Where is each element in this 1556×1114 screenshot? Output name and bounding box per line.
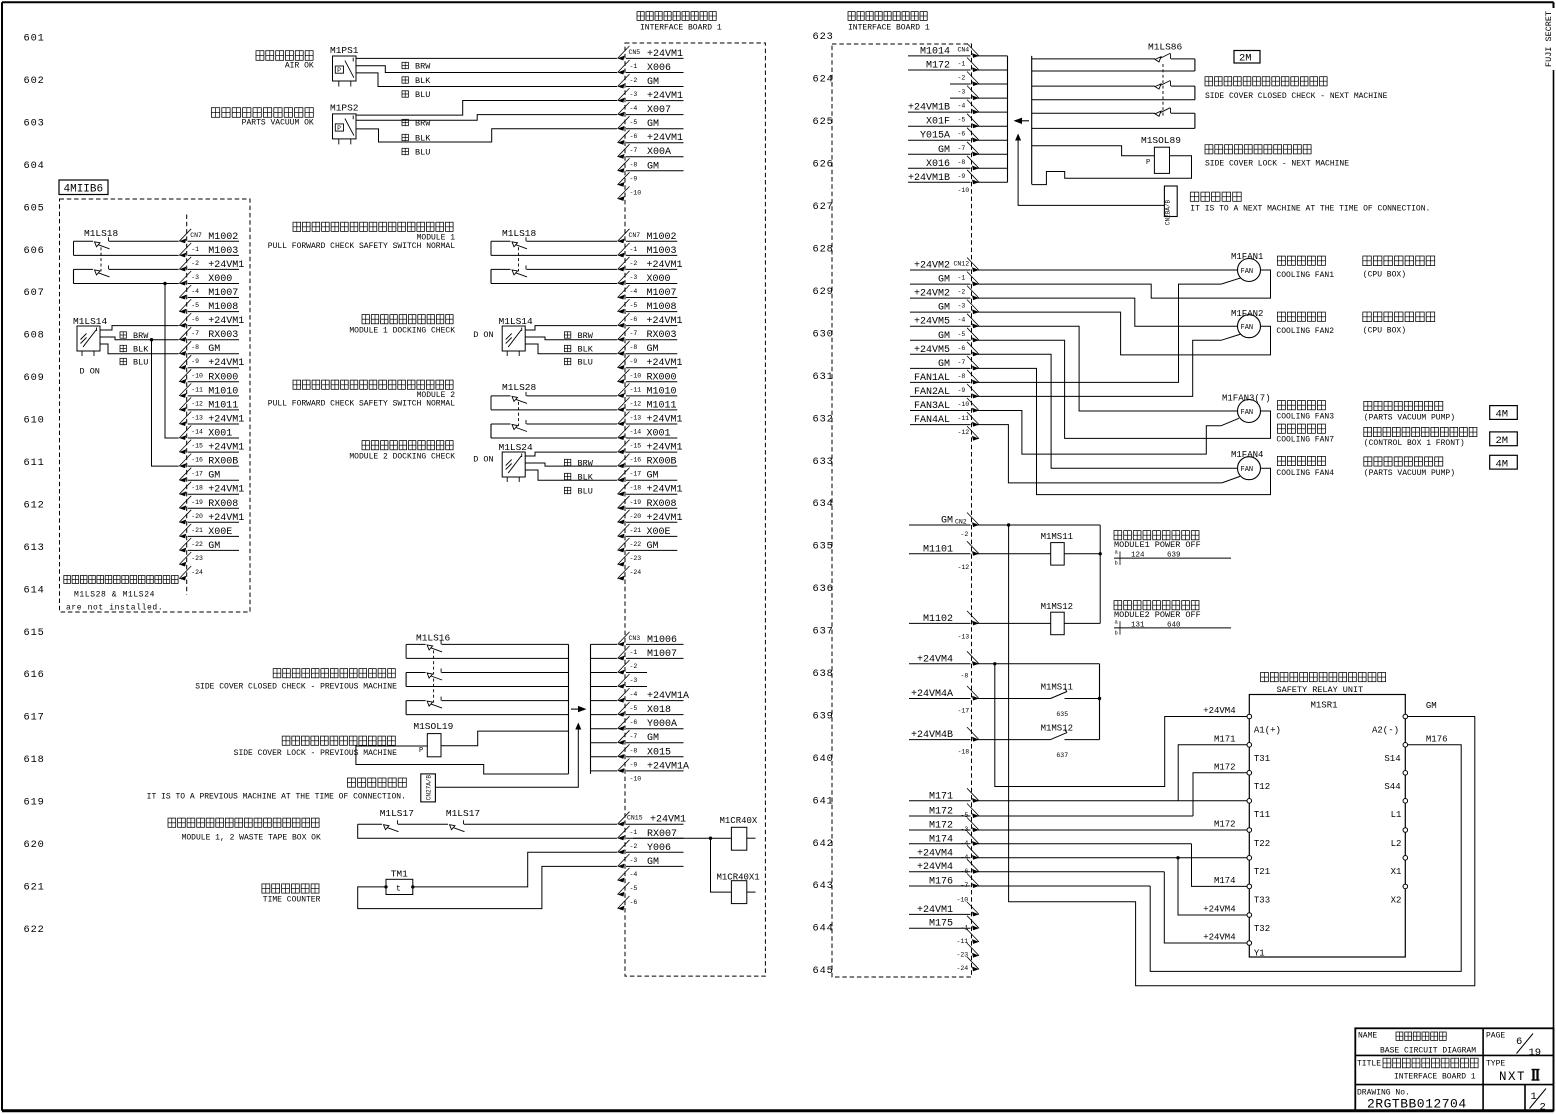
svg-text:-10: -10 [958, 401, 970, 408]
svg-text:644: 644 [813, 923, 834, 935]
svg-text:2: 2 [1540, 1102, 1546, 1114]
wire label BLU b2 [564, 487, 592, 497]
wire M1PS2 X007 to CN5-4 [356, 115, 617, 121]
cooling fan M1FAN3 [1222, 394, 1271, 423]
svg-text:(PARTS VACUUM PUMP): (PARTS VACUUM PUMP) [1364, 414, 1455, 423]
svg-text:632: 632 [813, 413, 834, 425]
svg-text:COOLING FAN3: COOLING FAN3 [1276, 412, 1334, 421]
svg-text:-4: -4 [191, 288, 199, 295]
svg-text:-6: -6 [630, 316, 638, 323]
svg-text:-3: -3 [630, 274, 638, 281]
svg-text:-8: -8 [958, 373, 966, 380]
wire fan3 alarm [977, 411, 1239, 455]
wire M1LS14 +24VM1 to CN7-6 [100, 326, 179, 330]
svg-text:610: 610 [24, 415, 45, 427]
svg-text:FAN: FAN [1241, 409, 1254, 417]
title block frame [1355, 1028, 1553, 1110]
svg-text:639: 639 [813, 711, 834, 723]
svg-text:t: t [396, 885, 401, 894]
caption side cover closed next JP [1205, 77, 1327, 86]
svg-text:SAFETY RELAY UNIT: SAFETY RELAY UNIT [1277, 685, 1364, 695]
svg-text:620: 620 [24, 839, 45, 851]
cable bundle bracket right (CN4) [1031, 56, 1033, 184]
svg-text:S44: S44 [1384, 782, 1400, 792]
svg-text:b: b [1115, 560, 1118, 567]
svg-text:BLK: BLK [415, 76, 431, 86]
wire M171 to T31 [1178, 745, 1247, 801]
svg-text:-12: -12 [958, 429, 970, 436]
svg-text:-4: -4 [630, 871, 638, 878]
svg-text:(CONTROL BOX 1 FRONT): (CONTROL BOX 1 FRONT) [1364, 439, 1465, 448]
svg-text:-1: -1 [630, 246, 638, 253]
wire M1PS2 +24VM1 to CN5-3 [356, 101, 617, 116]
svg-text:IT IS TO A NEXT MACHINE AT THE: IT IS TO A NEXT MACHINE AT THE TIME OF C… [1190, 204, 1430, 213]
svg-text:-6: -6 [958, 131, 966, 138]
svg-text:617: 617 [24, 712, 45, 724]
wire M172 to T12 [977, 773, 1247, 816]
svg-text:FAN: FAN [1241, 324, 1254, 332]
caption to previous machine JP [347, 778, 406, 787]
wire coil M1MS11 return [1064, 552, 1102, 555]
svg-text:640: 640 [813, 753, 834, 765]
connector CN4 [908, 43, 979, 194]
limit switch M1LS16 [406, 633, 568, 687]
caption fan3 location JP [1364, 401, 1477, 447]
wire M1PS1 X006 to CN5-1 [356, 66, 617, 73]
proximity switch M1LS24 (board side) [502, 452, 525, 477]
svg-text:M171: M171 [1214, 734, 1236, 744]
connector CN27A/B [421, 774, 436, 802]
svg-text:-9: -9 [958, 387, 966, 394]
wire label BLU M1LS14 [120, 358, 148, 368]
svg-text:4M: 4M [1496, 458, 1509, 470]
wire M1LS14b GM to CN7-8 [525, 344, 617, 354]
wire +24VM4 row [977, 662, 1100, 665]
svg-text:-2: -2 [630, 260, 638, 267]
svg-text:CN2: CN2 [955, 519, 967, 526]
svg-text:-9: -9 [958, 173, 966, 180]
tag box 4M fan4 [1490, 455, 1518, 470]
svg-text:-24: -24 [191, 569, 203, 576]
svg-text:+24VM4: +24VM4 [1203, 933, 1235, 943]
wire label BLK b1 [564, 345, 593, 355]
svg-text:M172: M172 [1214, 820, 1236, 830]
contact M1MS11 [977, 683, 1100, 719]
svg-text:4MIIB6: 4MIIB6 [64, 183, 104, 195]
svg-text:SIDE COVER LOCK - NEXT MACHINE: SIDE COVER LOCK - NEXT MACHINE [1205, 160, 1349, 169]
svg-text:M1LS14: M1LS14 [499, 316, 534, 327]
svg-text:PULL FORWARD CHECK SAFETY SWIT: PULL FORWARD CHECK SAFETY SWITCH NORMAL [268, 242, 455, 251]
wire TM1 to GM [358, 866, 617, 908]
svg-text:-11: -11 [958, 415, 970, 422]
svg-text:630: 630 [813, 328, 834, 340]
svg-text:-2: -2 [630, 843, 638, 850]
svg-text:P: P [419, 747, 423, 755]
svg-text:PAGE: PAGE [1486, 1031, 1505, 1040]
svg-text:-7: -7 [958, 359, 966, 366]
wire M174 to T33 [977, 844, 1247, 887]
svg-text:-11: -11 [957, 938, 969, 945]
svg-text:-19: -19 [630, 499, 642, 506]
wire CN2BA/B to bundle [1015, 134, 1165, 206]
wire RX007 to M1CR40X [633, 837, 731, 839]
caption fan1 location JP [1363, 256, 1435, 279]
svg-text:609: 609 [24, 372, 45, 384]
connector CN2BA/B [1164, 186, 1177, 225]
svg-text:BRW: BRW [578, 459, 594, 469]
svg-text:-16: -16 [191, 457, 203, 464]
cooling fan M1FAN1 [1231, 252, 1263, 282]
relay terminals [1247, 714, 1408, 958]
svg-text:P: P [337, 125, 341, 132]
svg-text:M1MS12: M1MS12 [1041, 724, 1073, 734]
svg-text:-12: -12 [191, 400, 203, 407]
svg-text:-12: -12 [958, 564, 970, 571]
svg-text:124: 124 [1131, 552, 1145, 560]
caption fan2 JP [1276, 312, 1334, 336]
svg-text:-21: -21 [191, 527, 203, 534]
tag box 2M fan7 [1490, 432, 1518, 447]
svg-text:-6: -6 [630, 133, 638, 140]
svg-text:-2: -2 [630, 77, 638, 84]
wire M1LS24 RX00B to CN7-16 [525, 463, 617, 466]
limit switch M1LS86 [1032, 42, 1195, 129]
svg-text:CN12: CN12 [954, 261, 970, 268]
wire M1LS17 return RX007 [358, 824, 617, 838]
svg-text:625: 625 [813, 116, 834, 128]
svg-text:-1: -1 [958, 61, 966, 68]
svg-text:616: 616 [24, 669, 45, 681]
svg-text:M1FAN1: M1FAN1 [1231, 252, 1263, 262]
svg-text:-4: -4 [958, 103, 966, 110]
svg-text:T12: T12 [1254, 782, 1270, 792]
proximity switch M1LS14 (4MIIB6) [77, 326, 100, 351]
wire label BLU b1 [564, 358, 592, 368]
svg-text:615: 615 [24, 627, 45, 639]
wire M1101 to coil [977, 553, 1051, 555]
wire M1102 to coil [977, 622, 1051, 624]
svg-text:-15: -15 [630, 443, 642, 450]
svg-text:INTERFACE BOARD 1: INTERFACE BOARD 1 [640, 24, 722, 33]
svg-text:NAME: NAME [1358, 1031, 1377, 1040]
border frame [2, 1, 1554, 3]
svg-text:INTERFACE BOARD 1: INTERFACE BOARD 1 [1394, 1073, 1476, 1082]
svg-text:645: 645 [813, 965, 834, 977]
svg-text:-1: -1 [191, 246, 199, 253]
interface board 1 (center) outline [625, 43, 765, 976]
contactor coil M1MS11 [1041, 532, 1073, 565]
connector CN7 (interface board) [618, 215, 683, 595]
svg-text:643: 643 [813, 880, 834, 892]
svg-text:-10: -10 [191, 372, 203, 379]
svg-text:T11: T11 [1254, 810, 1270, 820]
svg-text:614: 614 [24, 584, 45, 596]
contact M1MS12 [977, 724, 1100, 760]
svg-text:(CPU BOX): (CPU BOX) [1363, 270, 1406, 279]
cable bundle arrow (CN4) [1014, 118, 1030, 124]
wire +24VM4 to A1 [995, 664, 1247, 787]
svg-text:M1LS16: M1LS16 [416, 633, 451, 644]
wire fan4 alarm [977, 425, 1240, 483]
svg-text:626: 626 [813, 159, 834, 171]
svg-text:-4: -4 [630, 288, 638, 295]
svg-text:M1FAN3(7): M1FAN3(7) [1222, 394, 1271, 404]
wire fan1 alarm [977, 278, 1241, 383]
svg-text:-7: -7 [191, 330, 199, 337]
svg-text:2M: 2M [1239, 53, 1252, 65]
cable bundle bracket left (CN3) [568, 644, 570, 774]
svg-text:(PARTS VACUUM PUMP): (PARTS VACUUM PUMP) [1364, 469, 1455, 478]
svg-text:606: 606 [24, 245, 45, 257]
node X000 junction [163, 282, 166, 285]
svg-text:BASE CIRCUIT DIAGRAM: BASE CIRCUIT DIAGRAM [1380, 1046, 1476, 1055]
svg-text:CN15: CN15 [627, 815, 643, 822]
wire fan4 +24VM5 [977, 354, 1238, 468]
svg-text:-23: -23 [630, 555, 642, 562]
svg-text:-22: -22 [630, 541, 642, 548]
svg-text:-21: -21 [630, 527, 642, 534]
cable bundle arrow (CN3) [571, 706, 587, 712]
parts vacuum caption JP [211, 108, 313, 118]
svg-text:TYPE: TYPE [1486, 1059, 1505, 1068]
svg-text:-12: -12 [630, 400, 642, 407]
svg-text:M174: M174 [1214, 876, 1236, 886]
svg-text:L1: L1 [1391, 810, 1402, 820]
wire fan1 +24VM2 [977, 269, 1238, 271]
wire +24VM4 to T32 [1178, 858, 1247, 915]
wire fan2 GM return [977, 312, 1271, 355]
svg-text:PULL FORWARD CHECK SAFETY SWIT: PULL FORWARD CHECK SAFETY SWITCH NORMAL [268, 399, 455, 408]
solenoid M1SOL19 [413, 721, 453, 757]
cooling fan M1FAN4 [1231, 450, 1263, 480]
svg-text:TIME COUNTER: TIME COUNTER [263, 896, 321, 905]
wire fan3 GM return [977, 340, 1271, 438]
svg-text:-5: -5 [630, 885, 638, 892]
interface board 1 (right) title JP [848, 12, 927, 21]
caption module1 power off JP [1114, 531, 1199, 540]
svg-text:TITLE: TITLE [1357, 1059, 1381, 1068]
svg-text:M1LS28 & M1LS24: M1LS28 & M1LS24 [74, 591, 155, 600]
relay coil M1CR40X1 [717, 873, 760, 904]
svg-text:-8: -8 [630, 747, 638, 754]
wire M171 row [977, 800, 1247, 802]
svg-text:INTERFACE BOARD 1: INTERFACE BOARD 1 [848, 24, 930, 33]
svg-text:CN5: CN5 [629, 49, 641, 56]
svg-text:-3: -3 [958, 303, 966, 310]
svg-text:M1CR40X: M1CR40X [720, 816, 758, 826]
svg-text:-10: -10 [630, 372, 642, 379]
wire label BLU [402, 90, 430, 100]
svg-text:-11: -11 [630, 386, 642, 393]
limit switch M1LS18 (4MIIB6) [74, 228, 179, 284]
svg-text:CN7: CN7 [629, 232, 641, 239]
svg-text:-14: -14 [191, 429, 203, 436]
svg-text:M1SR1: M1SR1 [1311, 701, 1338, 711]
svg-text:S14: S14 [1384, 754, 1400, 764]
wire fan3 +24VM5 [977, 326, 1238, 411]
svg-text:-8: -8 [630, 161, 638, 168]
svg-text:D ON: D ON [473, 455, 493, 465]
svg-text:BLK: BLK [133, 345, 149, 355]
svg-text:638: 638 [813, 668, 834, 680]
solenoid M1SOL89 [1141, 135, 1181, 173]
svg-text:IT IS TO A PREVIOUS MACHINE AT: IT IS TO A PREVIOUS MACHINE AT THE TIME … [147, 792, 406, 801]
title block name [1358, 1031, 1476, 1055]
svg-text:M1LS24: M1LS24 [499, 442, 534, 453]
wire label BLK b2 [564, 473, 593, 483]
wire label BLK 2 [402, 133, 431, 143]
tag box 4M fan3 [1490, 406, 1518, 421]
svg-text:M1MS12: M1MS12 [1041, 602, 1073, 612]
node RX007 junction [709, 837, 712, 840]
svg-text:-10: -10 [958, 187, 970, 194]
svg-text:BLU: BLU [578, 358, 593, 368]
svg-text:-5: -5 [630, 302, 638, 309]
svg-text:-4: -4 [630, 691, 638, 698]
svg-text:A2(-): A2(-) [1372, 726, 1399, 736]
svg-text:635: 635 [1056, 711, 1068, 718]
svg-text:-9: -9 [630, 175, 638, 182]
svg-text:-2: -2 [630, 663, 638, 670]
limit switch M1LS17 pair [358, 808, 617, 832]
caption fan4 JP [1276, 456, 1334, 478]
svg-text:M1FAN2: M1FAN2 [1231, 309, 1263, 319]
connector CN5 [618, 46, 684, 201]
svg-text:are not installed.: are not installed. [66, 604, 163, 613]
svg-text:T32: T32 [1254, 924, 1270, 934]
svg-text:-9: -9 [630, 761, 638, 768]
svg-text:-7: -7 [630, 330, 638, 337]
cross reference 131 640 [1114, 618, 1231, 636]
svg-text:CN2BA/B: CN2BA/B [1165, 199, 1172, 225]
svg-text:BLU: BLU [415, 147, 430, 157]
svg-text:M1LS17: M1LS17 [380, 808, 414, 819]
wire M176 to S14 [977, 745, 1461, 972]
svg-text:-7: -7 [630, 733, 638, 740]
wire fan4 GM return [977, 368, 1271, 494]
svg-text:-2: -2 [191, 260, 199, 267]
svg-text:+24VM4: +24VM4 [1203, 706, 1235, 716]
caption side cover lock next JP [1205, 145, 1311, 154]
svg-text:608: 608 [24, 330, 45, 342]
wire label BLK [402, 76, 431, 86]
svg-text:-23: -23 [957, 952, 969, 959]
svg-text:PARTS VACUUM OK: PARTS VACUUM OK [242, 119, 314, 128]
svg-text:602: 602 [24, 75, 45, 87]
wire M1LS24 GM to CN7-17 [525, 470, 617, 480]
caption module1 docking JP [362, 315, 453, 324]
contactor coil M1MS12 [1041, 602, 1073, 635]
caption module1 sub [268, 233, 455, 251]
title block page [1486, 1031, 1541, 1059]
svg-text:GM: GM [1426, 701, 1437, 711]
svg-text:-19: -19 [191, 499, 203, 506]
svg-text:FUJI SECRET: FUJI SECRET [1544, 11, 1554, 67]
svg-text:-10: -10 [630, 775, 642, 782]
svg-text:BLU: BLU [415, 90, 430, 100]
svg-text:622: 622 [24, 924, 45, 936]
wire fan1 GM return [977, 270, 1271, 298]
svg-text:-9: -9 [630, 358, 638, 365]
svg-text:4M: 4M [1496, 409, 1509, 421]
relay coil M1CR40X [720, 816, 758, 850]
wire TM1 to Y006 [413, 852, 617, 887]
caption module2 sub [268, 391, 455, 409]
caption fan1 JP [1276, 256, 1334, 280]
svg-text:M176: M176 [1426, 734, 1448, 744]
svg-text:BLU: BLU [578, 487, 593, 497]
caption side cover lock prev JP [282, 736, 395, 745]
svg-text:CN3: CN3 [629, 635, 641, 642]
connector CN2 [909, 513, 979, 973]
svg-text:-4: -4 [958, 317, 966, 324]
svg-text:COOLING FAN4: COOLING FAN4 [1276, 469, 1334, 478]
svg-text:623: 623 [813, 31, 834, 43]
wire M1LS14 GM to CN7-8 [100, 344, 179, 354]
wire X000 to CN7-14 [165, 284, 179, 439]
wire M1SOL89 return [1032, 156, 1192, 185]
svg-text:-13: -13 [958, 634, 970, 641]
caption module2 pull forward JP [293, 380, 453, 389]
svg-text:637: 637 [1056, 752, 1068, 759]
svg-text:-1: -1 [630, 829, 638, 836]
svg-text:+24VM4: +24VM4 [1203, 905, 1235, 915]
svg-text:-10: -10 [630, 189, 642, 196]
svg-text:FAN: FAN [1241, 268, 1254, 276]
svg-text:BRW: BRW [133, 331, 149, 341]
svg-text:COOLING FAN1: COOLING FAN1 [1276, 271, 1334, 280]
air check caption JP [256, 51, 313, 61]
svg-text:M1PS2: M1PS2 [330, 103, 359, 114]
svg-text:-9: -9 [191, 358, 199, 365]
svg-text:MODULE 1 DOCKING CHECK: MODULE 1 DOCKING CHECK [349, 327, 455, 336]
svg-text:COOLING FAN2: COOLING FAN2 [1276, 327, 1334, 336]
cable bundle stubs (CN4) [977, 56, 1008, 182]
svg-text:M1MS11: M1MS11 [1041, 683, 1073, 693]
svg-text:-6: -6 [630, 899, 638, 906]
svg-text:M172: M172 [1214, 762, 1236, 772]
wire label BRW b2 [564, 459, 593, 469]
svg-text:b: b [1115, 629, 1118, 636]
svg-text:A1(+): A1(+) [1254, 726, 1281, 736]
svg-text:-1: -1 [958, 275, 966, 282]
wire GM row CN2 [977, 524, 1100, 526]
svg-text:AIR OK: AIR OK [285, 62, 314, 71]
svg-text:640: 640 [1167, 621, 1181, 629]
svg-text:-6: -6 [191, 316, 199, 323]
cooling fan M1FAN2 [1231, 309, 1263, 338]
wire fan2 +24VM2 [977, 298, 1238, 326]
svg-text:629: 629 [813, 286, 834, 298]
svg-text:T31: T31 [1254, 754, 1270, 764]
svg-text:-5: -5 [191, 302, 199, 309]
svg-text:CN7: CN7 [190, 232, 202, 239]
caption side cover closed check prev JP [273, 669, 395, 678]
svg-text:607: 607 [24, 287, 45, 299]
svg-text:-20: -20 [630, 513, 642, 520]
svg-text:M1SOL19: M1SOL19 [413, 721, 453, 732]
caption module2 docking JP [362, 441, 453, 450]
svg-text:639: 639 [1167, 552, 1181, 560]
svg-text:M1LS14: M1LS14 [73, 316, 108, 327]
caption safety relay unit JP [1261, 673, 1386, 682]
caption module2 power off JP [1114, 601, 1199, 610]
svg-text:-8: -8 [958, 159, 966, 166]
caption fan3 JP [1276, 401, 1334, 445]
svg-text:M1MS11: M1MS11 [1041, 532, 1073, 542]
svg-text:-14: -14 [630, 429, 642, 436]
svg-text:M1PS1: M1PS1 [330, 45, 359, 56]
